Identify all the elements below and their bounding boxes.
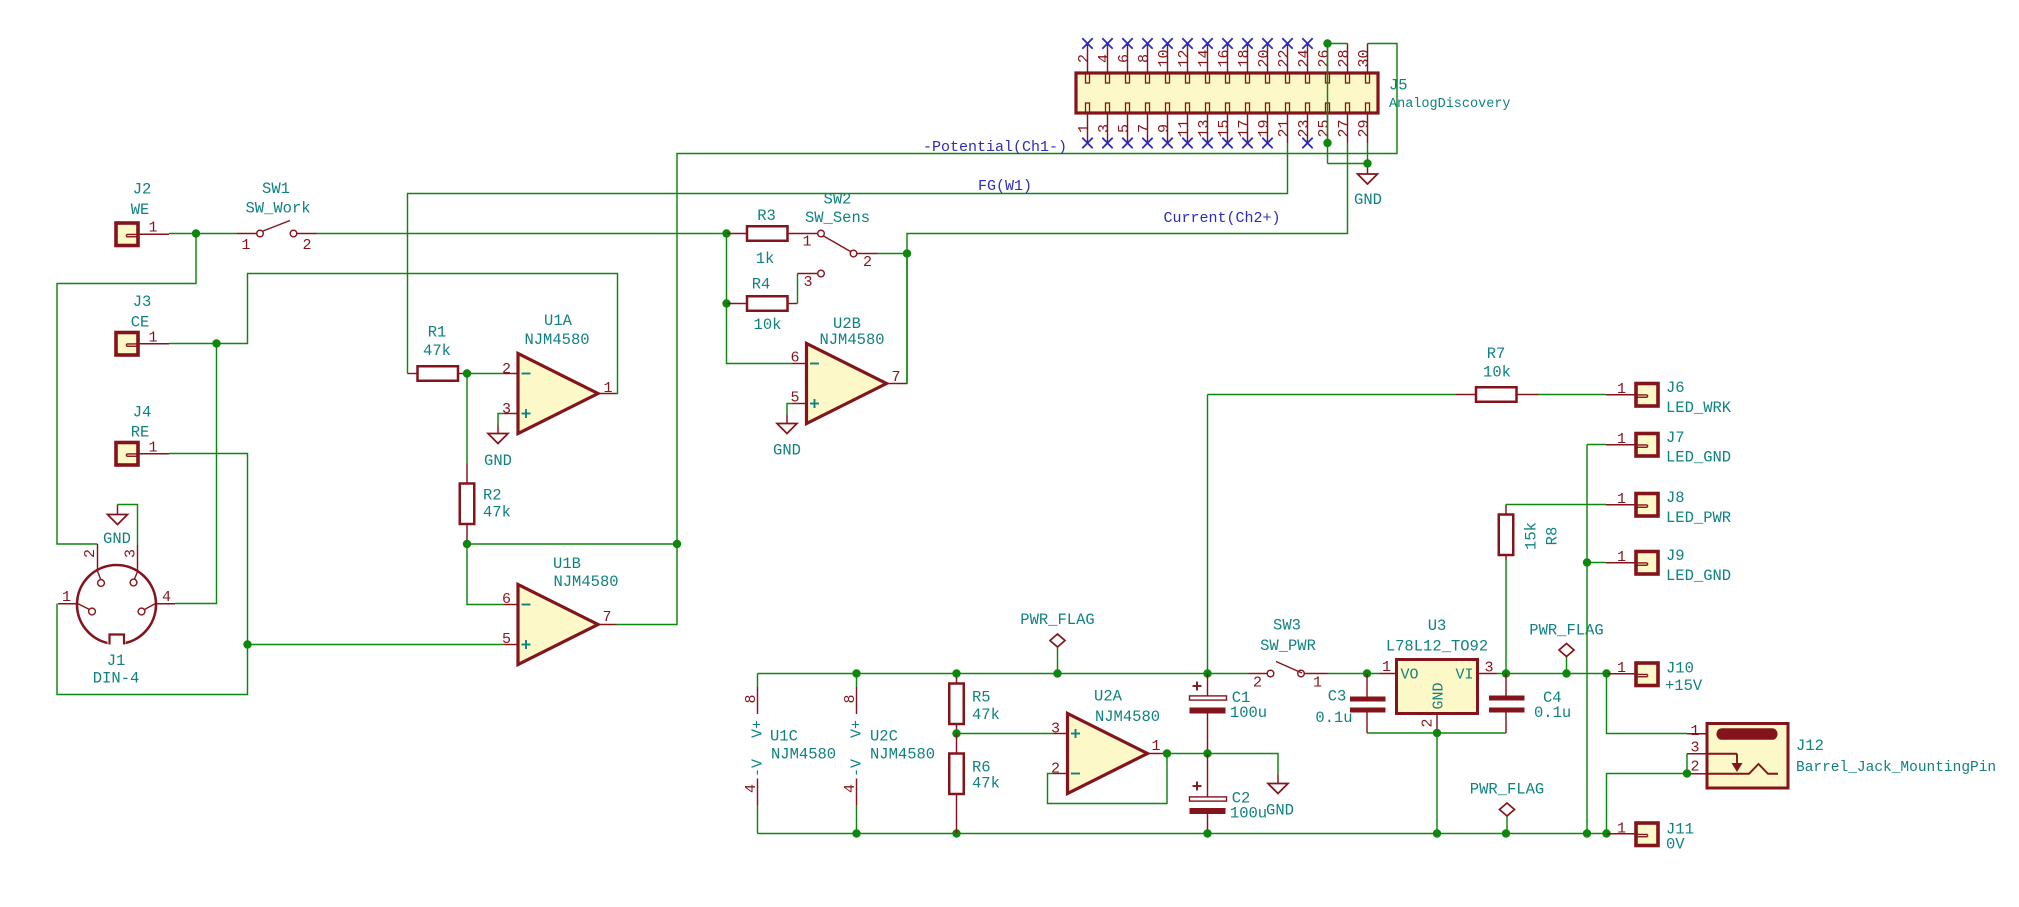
J5 pin 7 [1147, 113, 1149, 143]
svg-text:-: - [849, 768, 866, 777]
J5 pin 8 [1147, 44, 1149, 74]
connector J7 LED_GND [1587, 444, 1606, 446]
resistor R2 47k [466, 374, 468, 464]
svg-text:1: 1 [1151, 738, 1160, 755]
junction J10 node [1602, 669, 1610, 677]
svg-text:5: 5 [1116, 124, 1133, 133]
svg-text:7: 7 [891, 369, 900, 386]
svg-text:2: 2 [1253, 675, 1262, 692]
svg-text:10: 10 [1156, 49, 1173, 67]
svg-text:Barrel_Jack_MountingPin: Barrel_Jack_MountingPin [1796, 760, 1996, 776]
svg-text:2: 2 [1076, 54, 1093, 63]
svg-text:23: 23 [1296, 119, 1313, 137]
resistor R4 10k [727, 303, 748, 305]
regulator U3 L78L12_TO92 [1397, 660, 1478, 714]
svg-text:J7: J7 [1666, 429, 1685, 447]
wire R2 node to U1B pin6 [467, 544, 504, 605]
wire SW1 to R3 [317, 233, 727, 235]
wire J3 node down to J1 pin4 [175, 344, 217, 604]
svg-text:L78L12_TO92: L78L12_TO92 [1386, 637, 1488, 655]
junction Current node [903, 249, 911, 257]
svg-text:V+: V+ [849, 720, 866, 738]
svg-text:SW_Work: SW_Work [245, 199, 310, 217]
J1 pin 2 [97, 544, 99, 571]
svg-text:8: 8 [842, 694, 859, 703]
wire R1 to U1A pin2 [467, 373, 504, 375]
junction R1 right [463, 369, 471, 377]
svg-text:1: 1 [1617, 549, 1626, 566]
svg-text:GND: GND [1354, 191, 1382, 209]
svg-text:12: 12 [1176, 49, 1193, 67]
junction RE node [243, 640, 251, 648]
svg-text:NJM4580: NJM4580 [819, 331, 884, 349]
svg-text:U1C: U1C [770, 727, 798, 745]
svg-text:1: 1 [1617, 381, 1626, 398]
svg-text:J5: J5 [1389, 76, 1408, 94]
svg-text:4: 4 [162, 589, 171, 606]
wire U3 VI to +15V node [1497, 673, 1607, 675]
op-amp power pins U2C [856, 674, 858, 688]
svg-text:R1: R1 [428, 323, 447, 341]
resistor R3 1k [727, 233, 748, 235]
svg-text:1: 1 [148, 440, 157, 457]
svg-text:R7: R7 [1487, 345, 1506, 363]
svg-text:U3: U3 [1428, 617, 1447, 635]
wire R2 bottom to -Potential node [467, 543, 677, 545]
connector J12 Barrel_Jack body [1707, 724, 1788, 789]
capacitor C1 100u [1207, 674, 1209, 697]
wire SW3 to U3 VO [1328, 673, 1380, 675]
junction pin29 node [1363, 159, 1371, 167]
svg-text:SW3: SW3 [1273, 616, 1301, 634]
wire C4 bottom to U3 GND node [1437, 732, 1506, 734]
J1 pin 1 [58, 603, 77, 605]
svg-text:J2: J2 [133, 180, 152, 198]
wire R7 node vertical [1207, 395, 1209, 674]
svg-text:100u: 100u [1230, 704, 1267, 722]
junction PWR_FLAG 1 [1053, 669, 1061, 677]
J5 pin 1 [1087, 113, 1089, 143]
svg-text:13: 13 [1196, 119, 1213, 137]
svg-text:CE: CE [131, 313, 150, 331]
wire pin21 FG(W1) [408, 143, 1288, 374]
switch SW3 SW_PWR [1249, 673, 1268, 675]
J5 pin 30 [1367, 44, 1369, 74]
svg-text:1: 1 [241, 237, 250, 254]
connector J3 CE [116, 333, 138, 356]
svg-text:-: - [750, 768, 767, 777]
svg-text:6: 6 [790, 350, 799, 367]
J5 pin 27 [1347, 113, 1349, 143]
svg-text:1: 1 [1617, 821, 1626, 838]
wire GND to J1 pin3 [118, 505, 138, 546]
junction -Potential node [673, 540, 681, 548]
svg-text:1: 1 [1617, 660, 1626, 677]
junction U3 GND node [1433, 729, 1441, 737]
junction C3 top [1363, 669, 1371, 677]
svg-text:15: 15 [1216, 119, 1233, 137]
svg-text:R2: R2 [483, 486, 502, 504]
J5 pin 3 [1107, 113, 1109, 143]
wire U1A pin3 to ground [498, 414, 504, 425]
svg-text:1: 1 [1617, 431, 1626, 448]
svg-text:6: 6 [502, 591, 511, 608]
junction R2 bottom [463, 540, 471, 548]
J5 pin 4 [1107, 44, 1109, 74]
wire pin27 Current(Ch2+) [907, 143, 1348, 384]
wire pin29 down [1367, 143, 1369, 166]
wire pin25 to pin29 GND [1328, 163, 1368, 165]
J5 pin 14 [1207, 44, 1209, 74]
svg-text:2: 2 [302, 237, 311, 254]
svg-text:GND: GND [103, 530, 131, 548]
wire V+ rail [758, 673, 1249, 675]
svg-text:J12: J12 [1796, 737, 1824, 755]
capacitor C3 0.1u [1366, 674, 1368, 698]
J5 pin 15 [1227, 113, 1229, 143]
op-amp U1B NJM4580 [518, 585, 598, 665]
svg-text:VI: VI [1455, 667, 1473, 684]
svg-text:V+: V+ [750, 720, 767, 738]
resistor R5 47k [956, 674, 958, 684]
ground symbol U1A [488, 434, 508, 444]
svg-text:2: 2 [1690, 759, 1699, 776]
svg-text:1: 1 [148, 220, 157, 237]
wire V- rail [758, 833, 1608, 835]
junction R3 left [722, 229, 730, 237]
J5 pin 28 [1347, 44, 1349, 74]
J5 pin 5 [1127, 113, 1129, 143]
svg-text:GND: GND [484, 452, 512, 470]
switch SW1 SW_Work [237, 233, 257, 235]
junction PWR_FLAG 3 [1502, 829, 1510, 837]
power flag PWR_FLAG 2 [1566, 657, 1568, 674]
junction R5 top [952, 669, 960, 677]
connector J9 LED_GND [1587, 562, 1606, 564]
capacitor C2 100u [1207, 754, 1209, 797]
svg-text:8: 8 [743, 694, 760, 703]
svg-text:J9: J9 [1666, 547, 1685, 565]
svg-text:1k: 1k [756, 250, 775, 268]
svg-text:18: 18 [1236, 49, 1253, 67]
junction U1C top [852, 669, 860, 677]
svg-text:J10: J10 [1666, 659, 1694, 677]
svg-text:VO: VO [1401, 667, 1419, 684]
svg-text:LED_GND: LED_GND [1666, 567, 1731, 585]
J5 pin 9 [1167, 113, 1169, 143]
svg-text:1: 1 [148, 330, 157, 347]
J1 pin 3 [137, 545, 139, 572]
svg-text:19: 19 [1256, 119, 1273, 137]
svg-text:LED_WRK: LED_WRK [1666, 399, 1732, 417]
svg-text:3: 3 [123, 549, 140, 558]
svg-text:LED_PWR: LED_PWR [1666, 509, 1731, 527]
svg-text:9: 9 [1156, 124, 1173, 133]
wire R4 to SW2 pin3 [797, 274, 799, 304]
junction C4/R8 node [1502, 669, 1510, 677]
J5 pin 21 [1287, 113, 1289, 143]
wire pin30 to -Potential [677, 44, 1397, 545]
svg-text:SW2: SW2 [824, 190, 852, 208]
svg-text:1: 1 [603, 380, 612, 397]
J12 pin 3 [1687, 753, 1707, 755]
ground symbol near J5 [1358, 174, 1378, 184]
svg-text:47k: 47k [483, 503, 511, 521]
svg-text:1: 1 [1690, 723, 1699, 740]
svg-text:22: 22 [1276, 49, 1293, 67]
svg-text:PWR_FLAG: PWR_FLAG [1470, 780, 1544, 798]
svg-text:3: 3 [803, 274, 812, 291]
J5 pin 16 [1227, 44, 1229, 74]
svg-text:PWR_FLAG: PWR_FLAG [1020, 611, 1094, 629]
svg-text:4: 4 [743, 784, 760, 793]
wire SW2 pin2 to Current node [878, 253, 908, 255]
svg-text:100u: 100u [1230, 804, 1267, 822]
connector J1 DIN-4 body [77, 565, 156, 644]
svg-text:47k: 47k [972, 706, 1000, 724]
wire J3 to CE loop [169, 274, 618, 394]
svg-text:U2C: U2C [870, 727, 898, 745]
svg-text:14: 14 [1196, 49, 1213, 67]
svg-text:2: 2 [82, 549, 99, 558]
J5 pin 13 [1207, 113, 1209, 143]
junction C1 bottom [1203, 749, 1211, 757]
wire output node to ground [1208, 754, 1279, 775]
connector J8 LED_PWR [1606, 504, 1636, 506]
svg-text:DIN-4: DIN-4 [93, 669, 140, 687]
svg-text:47k: 47k [972, 774, 1000, 792]
wire J12 pin3 to pin2 [1686, 754, 1688, 774]
svg-text:AnalogDiscovery: AnalogDiscovery [1389, 97, 1511, 112]
junction C1 top [1203, 669, 1211, 677]
J5 pin 2 [1087, 44, 1089, 74]
J5 pin 19 [1267, 113, 1269, 143]
J5 no-connect marks top pins 2-24 [1082, 38, 1092, 48]
svg-text:R5: R5 [972, 688, 991, 706]
J5 pin 12 [1187, 44, 1189, 74]
svg-text:10k: 10k [754, 316, 782, 334]
svg-text:3: 3 [1484, 660, 1493, 677]
wire RE node to U1B pin5 [248, 644, 505, 646]
svg-text:LED_GND: LED_GND [1666, 448, 1731, 466]
op-amp power pins U1C [757, 674, 759, 688]
svg-text:V: V [750, 759, 767, 768]
junction U2A output [1163, 749, 1171, 757]
svg-text:16: 16 [1216, 49, 1233, 67]
svg-text:17: 17 [1236, 119, 1253, 137]
connector J2 WE [116, 223, 138, 246]
svg-text:4: 4 [1096, 54, 1113, 63]
wire -Potential node to U1B output [617, 544, 678, 625]
op-amp U2B NJM4580 [807, 344, 887, 424]
svg-text:2: 2 [1051, 761, 1060, 778]
svg-text:0.1u: 0.1u [1315, 709, 1352, 727]
J5 pin 29 [1367, 113, 1369, 143]
junction J9 [1583, 558, 1591, 566]
svg-text:1: 1 [62, 589, 71, 606]
wire R8 to J8 [1506, 504, 1606, 506]
wire J12 pin2 to 0V rail [1607, 774, 1688, 834]
svg-text:6: 6 [1116, 54, 1133, 63]
J5 pin 25 [1327, 113, 1329, 143]
svg-text:-Potential(Ch1-): -Potential(Ch1-) [923, 139, 1067, 156]
power flag PWR_FLAG 1 [1057, 647, 1059, 674]
svg-text:2: 2 [863, 254, 872, 271]
wire C3 bottom to U3 GND [1367, 732, 1437, 734]
svg-text:J3: J3 [133, 293, 152, 311]
svg-text:Current(Ch2+): Current(Ch2+) [1163, 210, 1280, 227]
connector J10 +15V [1607, 673, 1637, 675]
svg-text:30: 30 [1356, 49, 1373, 67]
svg-text:C3: C3 [1328, 687, 1347, 705]
connector J4 RE [116, 443, 138, 466]
J5 pin 22 [1287, 44, 1289, 74]
J5 pin 24 [1307, 44, 1309, 74]
J5 pin 26 [1327, 44, 1329, 74]
junction LED_GND rail [1583, 829, 1591, 837]
svg-text:27: 27 [1336, 119, 1353, 137]
J5 pin 10 [1167, 44, 1169, 74]
svg-text:SW_Sens: SW_Sens [805, 209, 870, 227]
junction J2 node [192, 229, 200, 237]
svg-text:2: 2 [502, 361, 511, 378]
junction PWR_FLAG 2 [1562, 669, 1570, 677]
svg-text:GND: GND [1431, 682, 1448, 709]
svg-text:U1A: U1A [544, 312, 573, 330]
svg-text:2: 2 [1420, 718, 1437, 727]
capacitor C4 0.1u [1505, 674, 1507, 698]
connector J11 0V [1607, 833, 1637, 835]
J5 pin 17 [1247, 113, 1249, 143]
power flag PWR_FLAG 3 [1506, 816, 1508, 834]
junction R5 bottom [952, 729, 960, 737]
svg-text:1: 1 [1313, 675, 1322, 692]
junction C2 bottom [1203, 829, 1211, 837]
junction U1C bottom [852, 829, 860, 837]
resistor R1 47k [408, 373, 418, 375]
junction J12 pin2 [1683, 769, 1691, 777]
wire LED_GND vertical [1586, 445, 1588, 834]
svg-text:R4: R4 [752, 275, 771, 293]
svg-text:1: 1 [1617, 491, 1626, 508]
svg-text:29: 29 [1356, 119, 1373, 137]
svg-text:J1: J1 [107, 652, 126, 670]
junction R4 left [722, 299, 730, 307]
J12 pin 1 [1687, 733, 1707, 735]
svg-text:GND: GND [773, 441, 801, 459]
wire U3 GND to V- rail [1436, 733, 1438, 834]
wire U2A output [1166, 753, 1208, 755]
svg-text:5: 5 [502, 631, 511, 648]
svg-text:R8: R8 [1543, 527, 1561, 546]
svg-text:R3: R3 [757, 207, 776, 225]
wire pin26-pin28 tie [1328, 44, 1348, 164]
junction pin26 top [1323, 39, 1331, 47]
svg-text:SW_PWR: SW_PWR [1260, 637, 1316, 655]
J5 pin 20 [1267, 44, 1269, 74]
svg-text:1: 1 [1382, 659, 1391, 676]
J5 no-connect marks bottom pins 1-19 and 23 [1082, 138, 1092, 148]
svg-text:J4: J4 [133, 403, 152, 421]
svg-text:3: 3 [502, 401, 511, 418]
wire +15V to J12 pin1 [1607, 674, 1688, 734]
connector J6 LED_WRK [1606, 394, 1636, 396]
junction J3 node [212, 339, 220, 347]
svg-text:47k: 47k [423, 342, 451, 360]
wire R3 node down to R4 and U2B pin6 [727, 234, 793, 364]
svg-text:V: V [849, 759, 866, 768]
svg-text:11: 11 [1176, 119, 1193, 137]
svg-text:J8: J8 [1666, 489, 1685, 507]
svg-text:NJM4580: NJM4580 [771, 745, 836, 763]
wire U2A feedback [1048, 754, 1168, 804]
svg-text:+15V: +15V [1665, 677, 1703, 695]
svg-text:24: 24 [1296, 49, 1313, 67]
junction U3 GND rail [1433, 829, 1441, 837]
svg-text:1: 1 [802, 234, 811, 251]
wire J2 node down to J1 pin2 [57, 234, 196, 545]
resistor R6 47k [956, 734, 958, 754]
svg-text:J6: J6 [1666, 379, 1685, 397]
svg-text:26: 26 [1316, 49, 1333, 67]
junction J11 node [1602, 829, 1610, 837]
svg-text:SW1: SW1 [262, 180, 290, 198]
resistor R8 15k [1505, 505, 1507, 515]
svg-text:U1B: U1B [553, 555, 581, 573]
wire R5/R6 mid to U2A pin3 [957, 733, 1054, 735]
svg-text:21: 21 [1276, 119, 1293, 137]
svg-text:3: 3 [1690, 740, 1699, 757]
svg-text:GND: GND [1266, 801, 1294, 819]
ground symbol J1 [117, 505, 119, 515]
J1 pin 4 [156, 603, 175, 605]
wire R7 to J6 [1539, 394, 1607, 396]
op-amp U1A NJM4580 [518, 354, 598, 434]
svg-text:4: 4 [842, 784, 859, 793]
wire Current node down to U2B output [906, 254, 907, 384]
svg-text:20: 20 [1256, 49, 1273, 67]
ground symbol U2B [777, 424, 797, 434]
wire U2B pin5 to ground [787, 404, 793, 415]
svg-text:WE: WE [131, 201, 150, 219]
svg-text:7: 7 [602, 609, 611, 626]
svg-text:NJM4580: NJM4580 [1095, 708, 1160, 726]
svg-text:10k: 10k [1483, 363, 1511, 381]
J12 pin 2 [1687, 773, 1707, 775]
svg-text:25: 25 [1316, 119, 1333, 137]
svg-text:PWR_FLAG: PWR_FLAG [1529, 621, 1603, 639]
J12 internal contacts [1707, 753, 1737, 755]
J5 pin 18 [1247, 44, 1249, 74]
svg-text:1: 1 [1076, 124, 1093, 133]
svg-text:RE: RE [131, 423, 150, 441]
svg-text:NJM4580: NJM4580 [553, 573, 618, 591]
J5 pin 11 [1187, 113, 1189, 143]
svg-text:15k: 15k [1522, 522, 1540, 550]
J5 pin 23 [1307, 113, 1309, 143]
junction R6 bottom rail [952, 829, 960, 837]
op-amp U2A NJM4580 [1068, 714, 1148, 794]
svg-text:0.1u: 0.1u [1534, 704, 1571, 722]
svg-text:8: 8 [1136, 54, 1153, 63]
svg-text:U2A: U2A [1094, 687, 1123, 705]
svg-text:0V: 0V [1666, 835, 1685, 853]
wire J2 to SW1 [169, 233, 237, 235]
connector J5 AnalogDiscovery body [1076, 73, 1378, 113]
svg-text:FG(W1): FG(W1) [978, 178, 1032, 195]
svg-text:7: 7 [1136, 124, 1153, 133]
ground symbol middle [1268, 784, 1288, 794]
